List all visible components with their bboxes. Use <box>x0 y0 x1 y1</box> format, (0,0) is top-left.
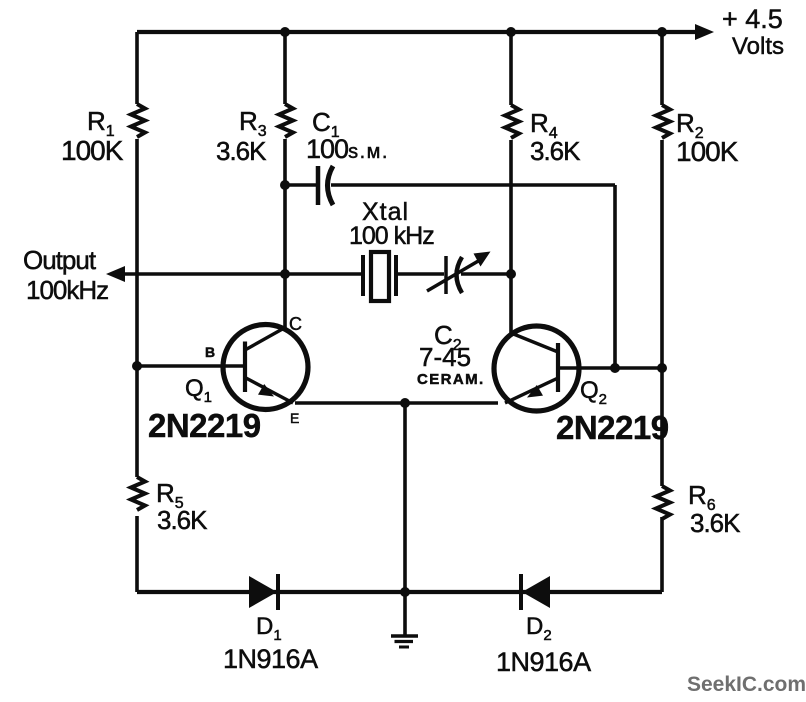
svg-text:B: B <box>205 344 215 360</box>
resistor R4 <box>505 105 519 138</box>
svg-text:100K: 100K <box>676 136 739 167</box>
capacitor C1 <box>318 166 333 205</box>
svg-text:Output: Output <box>23 245 97 275</box>
wire ground stub <box>403 403 407 635</box>
resistor R3 <box>279 104 293 137</box>
node Q1 base <box>132 361 142 371</box>
svg-text:D1: D1 <box>256 613 282 644</box>
svg-text:Volts: Volts <box>732 33 784 60</box>
svg-text:D2: D2 <box>526 613 552 644</box>
wire crystal branch <box>285 272 511 276</box>
power rail +4.5V <box>137 24 714 40</box>
variable capacitor trimmer <box>427 252 491 295</box>
svg-text:1N916A: 1N916A <box>496 647 591 677</box>
wire Q1 base <box>137 364 245 368</box>
crystal Xtal 100kHz <box>363 252 396 301</box>
wire C1 branch <box>285 185 615 368</box>
wire Q2 base <box>558 366 662 370</box>
svg-text:CERAM.: CERAM. <box>417 371 485 388</box>
node top R4 <box>506 27 516 37</box>
diode D1 1N916A <box>249 574 278 610</box>
svg-text:C: C <box>289 314 302 334</box>
svg-text:100K: 100K <box>61 135 124 166</box>
svg-text:SeekIC.com: SeekIC.com <box>687 673 806 696</box>
node bottom rail / ground <box>400 587 410 597</box>
svg-text:3.6K: 3.6K <box>530 136 581 166</box>
svg-text:100s.м.: 100s.м. <box>306 134 389 164</box>
resistor R5 <box>131 477 145 510</box>
svg-text:Q2: Q2 <box>580 377 607 408</box>
resistor R6 <box>656 486 670 519</box>
node output/collector Q1 <box>280 269 290 279</box>
svg-text:R3: R3 <box>239 106 267 140</box>
resistor R2 <box>656 105 670 138</box>
wire R3 branch vertical <box>283 32 287 328</box>
node emitter rail / ground <box>400 398 410 408</box>
svg-text:1N916A: 1N916A <box>223 644 318 674</box>
node top R3 <box>280 27 290 37</box>
node C1 tap <box>280 180 290 190</box>
node Q2 base / C1 feedback <box>610 363 620 373</box>
svg-text:3.6K: 3.6K <box>157 505 208 535</box>
wire R4 branch vertical <box>509 32 513 334</box>
label Output 100kHz <box>23 245 108 305</box>
svg-text:100kHz: 100kHz <box>26 275 108 305</box>
wire emitter rail <box>295 401 498 405</box>
node Q2 base / R2 <box>657 363 667 373</box>
diode D2 1N916A <box>521 574 550 610</box>
svg-text:2N2219: 2N2219 <box>148 407 261 444</box>
wire right vertical branch (R2/R6) <box>660 32 664 592</box>
ground <box>391 636 418 647</box>
svg-text:7-45: 7-45 <box>419 342 471 372</box>
svg-text:+ 4.5: + 4.5 <box>722 4 783 34</box>
transistor Q1 2N2219 <box>223 325 308 410</box>
output wire with arrow <box>106 266 285 282</box>
svg-text:100 kHz: 100 kHz <box>349 222 434 250</box>
node top R2 <box>657 27 667 37</box>
junction node dots <box>132 27 667 597</box>
wire left vertical branch (R1/R5) <box>135 32 139 592</box>
svg-text:Q1: Q1 <box>185 375 212 406</box>
svg-text:3.6K: 3.6K <box>216 136 267 166</box>
+4.5 Volts label <box>722 4 784 60</box>
resistor R1 <box>131 104 145 137</box>
svg-text:2N2219: 2N2219 <box>556 409 669 446</box>
svg-text:E: E <box>290 410 299 426</box>
wire bottom rail <box>137 590 662 594</box>
svg-text:3.6K: 3.6K <box>690 508 741 538</box>
node crystal/collector Q2 <box>506 269 516 279</box>
transistor Q2 2N2219 <box>494 326 579 411</box>
